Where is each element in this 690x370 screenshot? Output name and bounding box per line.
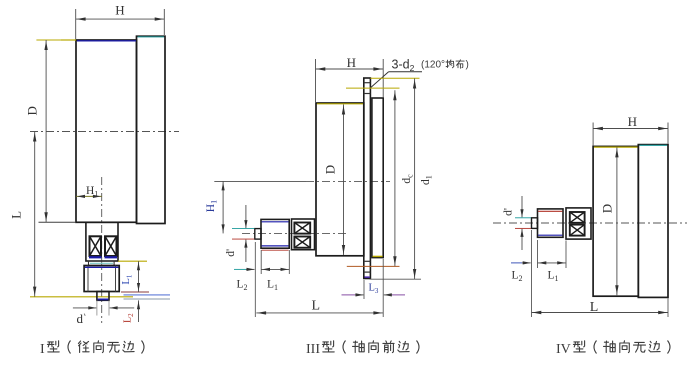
svg-text:): ) xyxy=(466,60,469,71)
svg-text:L: L xyxy=(312,299,321,314)
svg-text:D: D xyxy=(600,204,615,213)
svg-text:L: L xyxy=(590,300,599,315)
svg-text:L: L xyxy=(8,211,23,219)
svg-text:III: III xyxy=(306,342,320,357)
svg-text:D: D xyxy=(24,106,39,115)
svg-text:(120°: (120° xyxy=(421,60,445,71)
svg-text:D: D xyxy=(323,165,338,174)
svg-text:I: I xyxy=(40,342,45,357)
svg-text:H: H xyxy=(115,3,124,18)
svg-text:H: H xyxy=(628,114,637,129)
svg-text:d: d xyxy=(77,311,84,326)
svg-text:d': d' xyxy=(225,249,237,257)
svg-text:H: H xyxy=(347,55,356,70)
svg-text:IV: IV xyxy=(556,342,571,357)
svg-text:d': d' xyxy=(503,208,515,216)
